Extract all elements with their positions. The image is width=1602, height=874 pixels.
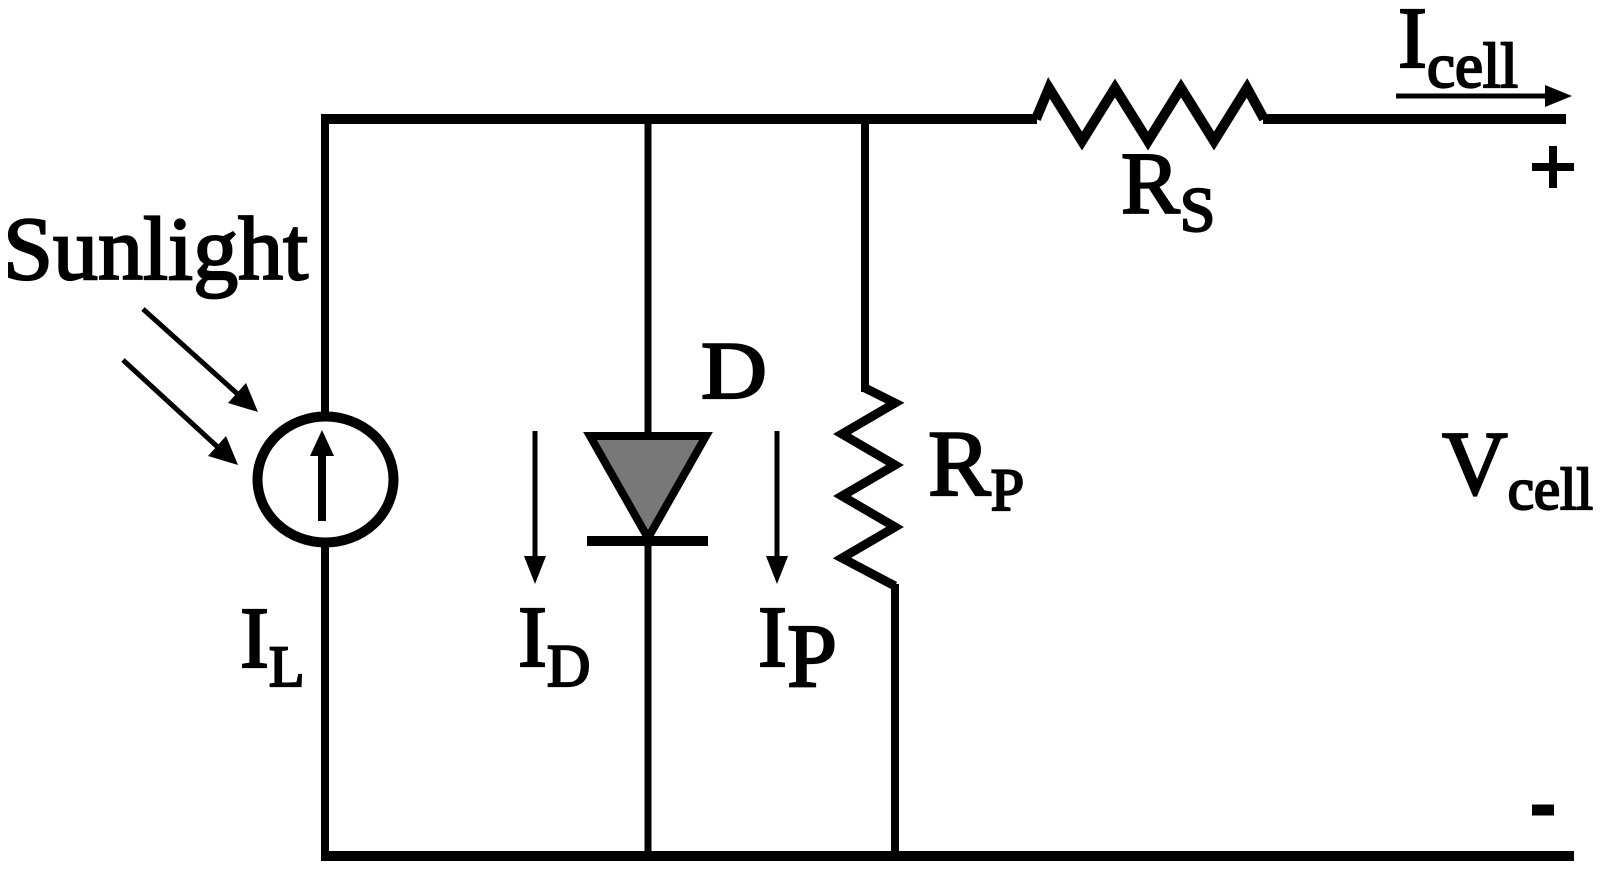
wire: diode branch lower (diode to bottom bus) — [645, 541, 652, 861]
sunlight ray arrow 1 — [143, 309, 258, 412]
minus terminal — [1532, 805, 1554, 816]
current arrow ID — [524, 431, 546, 584]
wire: diode branch upper (top bus to diode) — [645, 114, 652, 436]
wire: bottom bus — [321, 851, 1574, 861]
svg-text:Sunlight: Sunlight — [3, 200, 308, 299]
plus terminal — [1532, 146, 1574, 188]
wire: top bus from current-source branch to Rs — [321, 114, 1037, 124]
current source IL circle — [258, 417, 394, 543]
sunlight ray arrow 2 — [123, 360, 238, 465]
resistor RP zigzag — [842, 388, 895, 586]
current source IL arrow — [310, 430, 334, 521]
resistor RS zigzag — [1036, 88, 1264, 141]
wire: Rp branch upper (top bus to Rp) — [861, 114, 869, 392]
wire: left branch upper (top bus to current source) — [321, 114, 329, 414]
current arrow Icell — [1396, 85, 1572, 107]
diode D cathode bar — [587, 536, 708, 546]
wire: left branch lower (current source to bottom bus) — [321, 543, 329, 861]
svg-text:D: D — [701, 325, 767, 416]
wire: Rp branch lower (Rp to bottom bus) — [891, 584, 899, 861]
current arrow IP — [766, 431, 788, 584]
wire: top bus from Rs to + terminal — [1263, 114, 1566, 124]
diode D triangle — [590, 436, 706, 538]
